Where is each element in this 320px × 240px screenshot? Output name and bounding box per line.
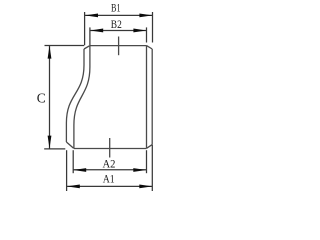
arrowhead B2 right — [133, 29, 146, 33]
extension line B2 left — [89, 27, 91, 45]
reducer body right inner edge — [146, 46, 148, 149]
extension line A2 left — [72, 150, 74, 173]
reducer body top-left bevel — [84, 46, 90, 49]
arrowhead B1 right — [139, 14, 152, 18]
extension line C top — [45, 45, 85, 47]
extension line A2 right — [146, 150, 148, 173]
extension line A1 left — [66, 150, 68, 191]
reducer body top-right bevel — [147, 46, 153, 49]
extension line B2 right — [146, 27, 148, 42]
reducer body bottom-left bevel — [66, 142, 73, 148]
dimension line B1 — [85, 14, 152, 16]
svg-text:B2: B2 — [111, 19, 122, 31]
reducer body right outer wall — [151, 49, 153, 145]
dimension line C — [49, 46, 51, 149]
arrowhead A2 right — [133, 168, 146, 172]
dimension line A2 — [73, 169, 146, 171]
arrowhead B1 left — [85, 14, 98, 18]
arrowhead A1 right — [139, 184, 152, 188]
dimension line A1 — [67, 185, 153, 187]
svg-text:B1: B1 — [111, 3, 121, 15]
reducer body bottom-right bevel — [147, 145, 153, 149]
reducer body left inner S-curve — [74, 46, 90, 149]
arrowhead C bottom — [48, 136, 52, 149]
reducer body left outer S-curve — [66, 49, 84, 142]
extension line C bottom — [44, 148, 65, 150]
arrowhead A1 left — [67, 184, 80, 188]
arrowhead C top — [48, 46, 52, 59]
centerline tick bottom — [109, 138, 111, 158]
centerline tick top — [118, 37, 120, 56]
svg-text:C: C — [37, 90, 46, 105]
arrowhead B2 left — [90, 29, 103, 33]
reducer body top face — [90, 45, 147, 47]
svg-text:A1: A1 — [103, 174, 115, 186]
extension line A1 right — [151, 145, 153, 191]
extension line B1 right — [152, 12, 154, 43]
svg-text:A2: A2 — [103, 158, 116, 170]
dimension line B2 — [90, 29, 146, 31]
arrowhead A2 left — [73, 168, 86, 172]
extension line B1 left — [84, 12, 86, 45]
reducer body bottom face — [74, 148, 147, 150]
